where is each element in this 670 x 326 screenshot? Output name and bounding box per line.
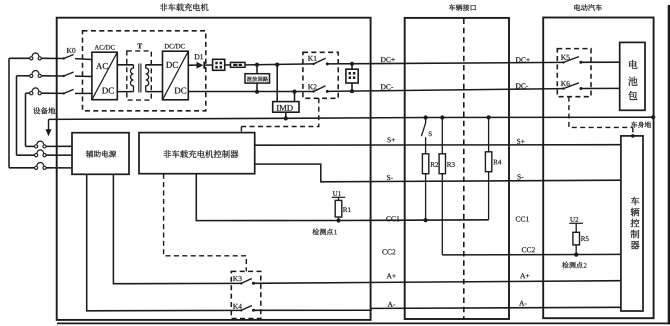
label R3 (447, 162, 455, 167)
current sensor box (213, 59, 225, 70)
transformer primary winding (131, 65, 134, 92)
label DC/DC (165, 44, 185, 49)
K0 pole 3 switch blade (63, 89, 92, 94)
label CC1 charger side (386, 216, 399, 221)
wire AC phase L2 with supply connector (17, 71, 64, 78)
node DC- Y-filter tap (350, 89, 354, 93)
wire S+ controller to vehicle (255, 144, 621, 147)
wire aux feed row 3 with connector (9, 163, 72, 170)
wire DC/DC to diode D1 (188, 64, 196, 66)
resistor R1 (335, 200, 342, 220)
wire transformer to DC/DC top (146, 64, 163, 66)
label CC2 vehicle side (522, 247, 535, 252)
label 车身地 (631, 122, 651, 128)
label A- charger side (388, 302, 396, 307)
dashed control link K5K6 to vehicle controller (569, 97, 633, 135)
node DC+ IMD tap (275, 63, 279, 67)
wire A+ from aux supply (113, 174, 241, 283)
diode D1 (197, 62, 205, 69)
label K6 (561, 81, 570, 86)
label K2 (308, 84, 317, 89)
auxiliary power supply box 辅助电源 (72, 133, 129, 175)
vehicle interface mating dashed centerline (463, 19, 465, 319)
label R4 (493, 160, 501, 165)
label DC- charger side (381, 84, 393, 89)
wire R2 to CC1 (425, 174, 427, 220)
wire S to R2 (425, 137, 427, 154)
transformer secondary winding (146, 65, 149, 92)
wire D1 to filter box (205, 64, 212, 66)
wire CC1 from controller (196, 174, 488, 221)
label U2 (569, 217, 583, 223)
electric vehicle enclosure box (543, 18, 653, 319)
label S+ vehicle side (517, 139, 525, 144)
off-board charger enclosure box (57, 18, 371, 320)
wire DC+ K1 to vehicle K5 (327, 62, 563, 64)
transformer T dashed box (127, 51, 152, 100)
AC/DC converter block U-rectifier (92, 52, 117, 99)
label K1 (308, 56, 317, 61)
label DC+ charger side (381, 57, 395, 62)
wire bleed bottom stub (256, 83, 258, 92)
wire DC+ K5 to battery (581, 61, 620, 63)
wire aux feed row 2 with connector (17, 150, 73, 157)
label 非车载充电机 (off-board charger) (160, 3, 209, 11)
node PE tap for switch S (424, 115, 428, 119)
label T (137, 44, 142, 49)
node DC+ bleed tap (255, 63, 259, 67)
node DC- bleed tap (255, 90, 259, 94)
node R2 CC1 junction (424, 218, 428, 222)
label AC/DC (94, 45, 114, 50)
label R5 (581, 236, 589, 241)
label K3 (233, 276, 242, 281)
wire AC phase L1 with supply connector (9, 53, 64, 60)
wire bleed top stub (256, 65, 258, 74)
wire transformer to DC/DC bottom (146, 91, 163, 93)
label 电动汽车 (electric vehicle) (574, 4, 602, 11)
wire DC- K6 to battery (581, 87, 620, 89)
figure right border (668, 5, 670, 324)
label CC2 charger side (382, 249, 395, 254)
figure bottom border (57, 322, 670, 324)
wire R4 to CC1 end (488, 172, 490, 220)
wire IMD ground lead (285, 112, 287, 118)
wire CC2 R3 to vehicle controller (442, 253, 621, 256)
node IMD to PE junction (284, 116, 288, 120)
wire sensor to fuse (225, 64, 231, 66)
wire A+ K3 to vehicle controller (254, 281, 621, 284)
K3 contactor blade (240, 279, 255, 285)
wire A- K4 to vehicle controller (254, 307, 621, 310)
bleed circuit box 泄放回路 (245, 74, 270, 83)
wire IMD right lead (294, 92, 296, 102)
wire S- controller to vehicle with jog (255, 164, 621, 182)
wire AC/DC to transformer top (117, 64, 133, 66)
Y-capacitor filter box (346, 69, 358, 83)
DC/DC converter block (163, 51, 189, 100)
resistor R3 (439, 154, 445, 174)
K4 contactor blade (240, 306, 255, 312)
contactor dashed box K5 K6 (557, 49, 591, 97)
wire IMD left lead (276, 65, 278, 102)
dashed power-stage box (83, 31, 206, 111)
resistor R4 (485, 152, 491, 172)
wire L1 bus down to aux row 3 (8, 58, 10, 168)
node detection point 2 (574, 253, 578, 257)
label K0 (67, 48, 76, 53)
label U1 (332, 191, 346, 197)
dashed control link controller to K3K4 (164, 174, 247, 272)
equipment ground arrow 设备地 (46, 119, 52, 136)
label K5 (561, 55, 570, 60)
wire aux feed row 1 with connector (26, 141, 73, 148)
wire DC+ fuse to K1 (245, 64, 314, 65)
label S- charger side (387, 175, 393, 180)
wire Y-filter bottom stub (351, 83, 353, 91)
node vehicle body earth 车身地 (651, 115, 655, 119)
wire DC- K2 to vehicle K6 (327, 89, 563, 92)
node PE tap for R4 (487, 115, 491, 119)
label 设备地 (33, 107, 55, 114)
wire R3 to CC2 corner (441, 174, 443, 255)
battery pack box 电池包 (620, 42, 645, 110)
K6 contactor blade (562, 83, 582, 90)
vehicle interface box 车辆接口 (405, 18, 509, 319)
node control link on vehicle controller (631, 134, 635, 138)
wire U2 to R5 (575, 223, 577, 232)
wire Y-filter top stub (351, 64, 353, 69)
node DC- IMD tap (292, 90, 296, 94)
label S- vehicle side (518, 174, 524, 179)
fuse box (231, 62, 246, 67)
label K4 (233, 304, 242, 309)
off-board charger controller box (139, 133, 255, 174)
label A- vehicle side (519, 301, 527, 306)
label 检测点1 (313, 229, 337, 236)
resistor R5 (573, 232, 580, 254)
transformer core (139, 64, 141, 93)
wire U1 to R1 (338, 197, 340, 200)
wire AC/DC to transformer bottom (117, 91, 133, 93)
node DC+ Y-filter tap (350, 62, 354, 66)
label R1 (343, 207, 351, 212)
label A+ charger side (387, 273, 396, 278)
K0 pole 1 switch blade (63, 55, 92, 60)
dashed control link K1K2 to controller (241, 98, 318, 132)
label D1 (195, 54, 204, 59)
switch S blade (421, 123, 425, 136)
label CC1 vehicle side (516, 217, 529, 222)
label 检测点2 (562, 262, 586, 269)
resistor R2 (422, 154, 428, 174)
wire PE to R4 (488, 117, 490, 151)
node detection point 1 (336, 218, 340, 222)
K5 contactor blade (562, 57, 582, 64)
wire AC phase L3 with supply connector (26, 88, 64, 95)
label S+ charger side (388, 137, 396, 142)
wire S upper stub (425, 118, 427, 124)
PE wire equipment ground to vehicle body (49, 117, 654, 119)
wire A- from aux supply (87, 174, 242, 310)
label A+ vehicle side (520, 273, 529, 278)
label R2 (431, 162, 439, 167)
label 车辆接口 (vehicle coupler) (449, 4, 476, 11)
K0 pole 2 switch blade (63, 72, 92, 77)
label DC- vehicle side (516, 83, 528, 88)
wire PE to R3 (441, 118, 443, 154)
contactor dashed box K1 K2 (303, 52, 338, 98)
vehicle controller box 车辆控制器 (621, 136, 643, 311)
node PE tap for R3 (440, 115, 444, 119)
label DC+ vehicle side (516, 57, 530, 62)
wire L3 bus down to aux row 1 (25, 93, 27, 146)
K1 contactor blade (313, 58, 329, 65)
label S (429, 131, 432, 136)
contactor dashed box K3 K4 (231, 271, 260, 318)
IMD insulation monitor box (273, 102, 299, 113)
K2 contactor blade (313, 86, 329, 93)
wire L2 bus down to aux row 2 (16, 76, 18, 155)
wire DC- DC/DC to K2 (188, 91, 313, 93)
